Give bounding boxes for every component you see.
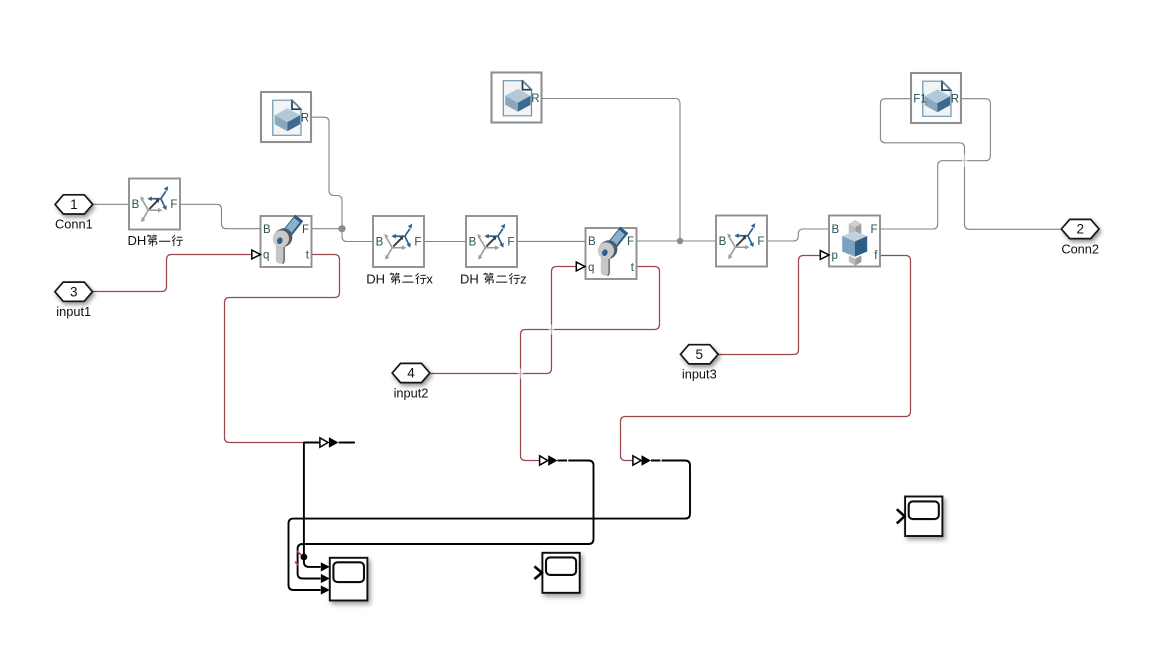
svg-text:Conn2: Conn2 [1061, 241, 1099, 256]
wire junction to Scope1 input 1 [304, 557, 321, 567]
svg-text:1: 1 [70, 197, 78, 212]
block TF4 (rigid transform) [716, 216, 767, 267]
svg-text:input1: input1 [56, 304, 91, 319]
arrow group 3 filled arrow [642, 455, 651, 466]
port Prismatic p input triangle [820, 251, 829, 260]
port input3 (input3) hexagon [681, 345, 719, 364]
block DH2z (rigid transform) [466, 216, 517, 267]
wire DH2x F to DH2z B [424, 241, 466, 243]
svg-text:2: 2 [1076, 222, 1084, 237]
wire Solid R3 port R to Prismatic F [880, 99, 990, 229]
wire Solid R1 to node J1 to DH2x B [311, 117, 373, 241]
block Prismatic (prismatic joint) [829, 216, 880, 267]
wire DH1 F to Joint1 B [180, 204, 261, 228]
svg-text:q: q [588, 262, 594, 274]
svg-text:R: R [531, 93, 539, 105]
arrow group 3 open triangle [633, 456, 641, 465]
svg-text:Conn1: Conn1 [55, 217, 93, 232]
wire Joint1 t down to black arrow group 1 [225, 255, 340, 443]
label DH第一行 [128, 233, 183, 248]
wire Solid R3 port F1 to Conn2 [880, 99, 1061, 230]
wire group3 to Scope1 input 3 [289, 461, 691, 591]
Scope1 input arrow 3 [321, 585, 330, 594]
svg-text:R: R [301, 113, 309, 125]
port Conn1 (Conn1) hexagon [55, 195, 93, 214]
svg-text:x: x [426, 271, 433, 286]
label DH 第二行x [366, 271, 433, 286]
Scope1 input arrow 1 [321, 562, 330, 571]
svg-text:F1: F1 [913, 94, 926, 106]
svg-text:p: p [832, 250, 838, 262]
port Joint1 q input triangle [252, 250, 261, 259]
svg-text:B: B [469, 237, 477, 249]
svg-text:DH: DH [128, 233, 147, 248]
svg-text:F: F [170, 199, 177, 211]
wire Joint2 t to black arrow group 2 [521, 267, 660, 461]
block Joint1 (revolute joint) [261, 215, 312, 267]
svg-text:B: B [263, 224, 271, 236]
svg-text:input3: input3 [682, 367, 717, 382]
svg-text:F: F [414, 237, 421, 249]
svg-text:F: F [302, 224, 309, 236]
block Scope1 (scope) [330, 558, 368, 601]
wire input2 to Joint2 q [430, 267, 576, 374]
block Scope2 (scope) [542, 553, 579, 593]
svg-text:F: F [757, 236, 764, 248]
svg-text:R: R [951, 94, 959, 106]
node black junction dot [301, 554, 308, 561]
svg-text:3: 3 [70, 284, 78, 299]
svg-text:B: B [719, 236, 727, 248]
svg-text:DH: DH [366, 271, 385, 286]
node J1 junction dot [338, 225, 345, 232]
port input2 (input2) hexagon [392, 363, 430, 382]
svg-text:4: 4 [407, 366, 415, 381]
arrow group 2 open triangle [540, 456, 548, 465]
wire DH2z F to Joint2 B [517, 240, 586, 242]
wire input1 to Joint1 q [92, 255, 251, 292]
wire TF4 F to Prismatic B [767, 229, 829, 241]
svg-text:B: B [132, 199, 140, 211]
wire Joint1 F to node J1 [312, 228, 343, 230]
svg-text:input2: input2 [394, 385, 429, 400]
wire crossing highlight at (964.5,160.7) [962, 155, 968, 167]
wire group2 to Scope1 input 2 [298, 461, 594, 579]
block DH1 (rigid transform) [129, 179, 180, 230]
wire black group1 horizontal [304, 442, 320, 444]
arrow group 2 filled arrow [548, 455, 557, 466]
wire black group1 branch down to scope junction [303, 443, 305, 558]
Scope1 input arrow 2 [321, 574, 330, 583]
label DH 第二行z [460, 271, 527, 286]
svg-text:q: q [263, 250, 269, 262]
arrow group 1 filled arrow [329, 437, 339, 448]
wire input3 to Prismatic p [719, 256, 821, 355]
svg-text:B: B [588, 236, 596, 248]
node J2 junction dot [677, 238, 683, 244]
block SolidR3 (file solid) [911, 73, 961, 123]
arrow group 1 open triangle [320, 438, 328, 447]
port Joint2 q input triangle [576, 262, 585, 271]
svg-text:F: F [870, 224, 877, 236]
wire crossing highlight at (551.2,329) [549, 325, 555, 335]
block SolidR1 (file solid) [261, 92, 311, 142]
wire Joint2 F through node J2 to TF4 B [637, 240, 717, 242]
wire Prismatic f to black arrow group 3 [621, 256, 911, 461]
wire crossing highlight at (520.1,373) [518, 369, 524, 379]
port Scope3 unconnected input [897, 509, 905, 523]
svg-text:F: F [507, 237, 514, 249]
block DH2x (rigid transform) [373, 216, 424, 267]
svg-text:z: z [520, 271, 527, 286]
wire Solid R2 to node J2 [542, 99, 680, 242]
svg-text:B: B [376, 237, 384, 249]
port input1 (input1) hexagon [55, 282, 93, 301]
block Scope3 (scope) [905, 497, 942, 537]
block SolidR2 (file solid) [492, 73, 542, 123]
wire Conn1 to DH1 B [93, 203, 129, 205]
svg-text:5: 5 [696, 347, 704, 362]
svg-text:DH: DH [460, 271, 479, 286]
svg-text:B: B [832, 224, 840, 236]
block Joint2 (revolute joint) [586, 227, 637, 279]
port Conn2 (Conn2) hexagon [1061, 219, 1099, 238]
port Scope2 unconnected input [534, 566, 542, 579]
svg-text:F: F [627, 236, 634, 248]
marker red dashes at junction [295, 551, 301, 566]
